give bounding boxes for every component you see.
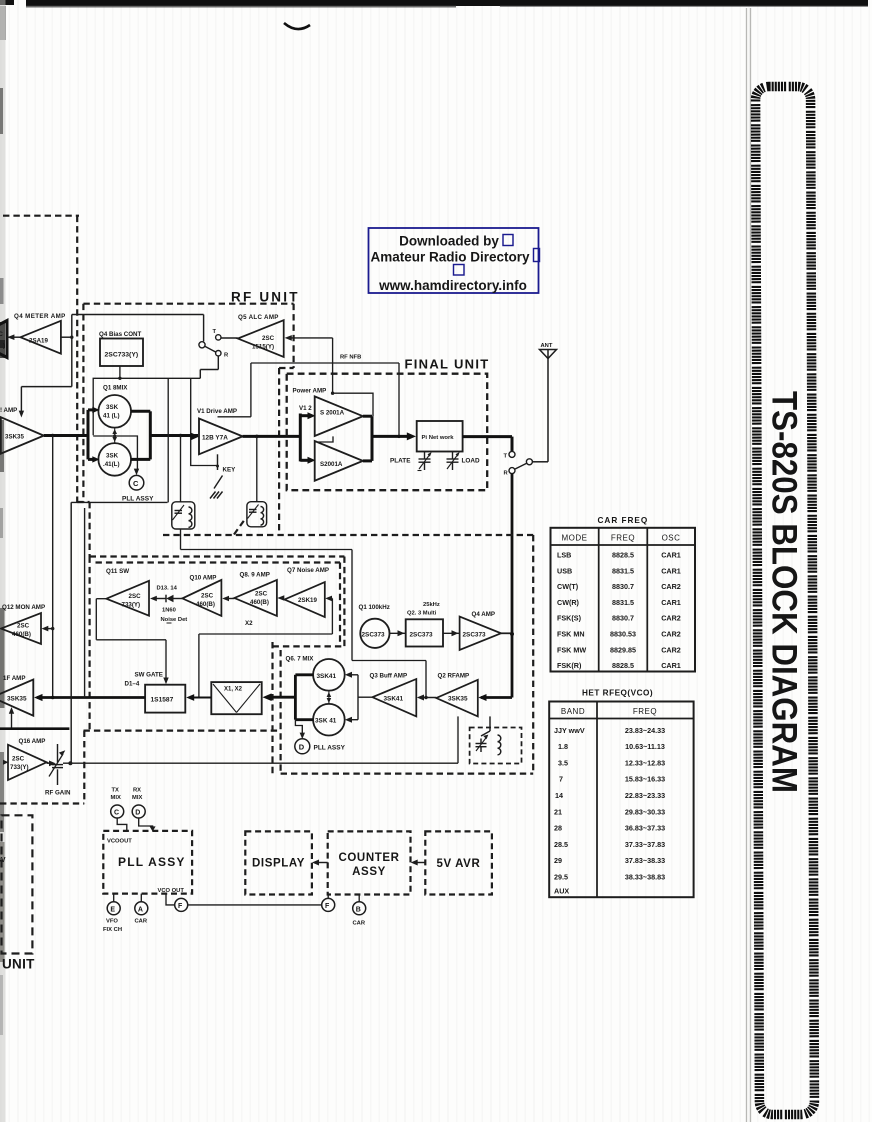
wire vertical bus x71.8 upper <box>167 378 169 502</box>
wire cal chain <box>390 632 406 634</box>
wire meter amp input from node <box>61 315 204 342</box>
svg-text:FINAL UNIT: FINAL UNIT <box>405 357 490 372</box>
binder perforated frame <box>756 86 815 1114</box>
svg-text:8V: 8V <box>0 857 6 864</box>
wire meter amp output w/ arrow <box>9 336 21 338</box>
svg-text:Q4 AMP: Q4 AMP <box>472 611 496 618</box>
svg-text:Q11 SW: Q11 SW <box>106 568 129 575</box>
svg-text:CW(R): CW(R) <box>557 598 580 607</box>
multiplier box X1,X2 <box>211 682 261 714</box>
PLL ASSY dashed box <box>103 831 192 894</box>
svg-text:Q1 8MIX: Q1 8MIX <box>103 385 128 392</box>
potentiometer RF GAIN <box>47 744 63 785</box>
middle dashed boxes <box>84 521 534 774</box>
svg-text:www.hamdirectory.info: www.hamdirectory.info <box>378 278 527 293</box>
svg-text:Power AMP: Power AMP <box>293 388 327 395</box>
node D to PLL ASSY <box>295 720 302 736</box>
svg-text:FSK(S): FSK(S) <box>557 614 582 623</box>
svg-text:41 (L): 41 (L) <box>103 413 120 420</box>
svg-text:12.33~12.83: 12.33~12.83 <box>625 758 665 767</box>
svg-text:PLL ASSY: PLL ASSY <box>122 496 154 503</box>
svg-text:BAND: BAND <box>561 707 585 716</box>
svg-text:CAR1: CAR1 <box>661 551 681 560</box>
svg-text:.41(L): .41(L) <box>103 461 120 468</box>
variable capacitor LOAD <box>447 452 459 471</box>
thick input bracket to Q1 8MIX <box>88 410 95 460</box>
svg-text:CAR FREQ: CAR FREQ <box>598 516 649 525</box>
svg-text:28.5: 28.5 <box>554 840 568 849</box>
svg-text:! AMP: ! AMP <box>0 407 17 414</box>
node F wire to counter <box>166 894 328 905</box>
wire tank1 bottom to noise amp chain <box>181 529 427 698</box>
wire R contact down to grid box <box>200 356 218 378</box>
svg-text:CAR2: CAR2 <box>661 630 681 639</box>
svg-text:10.63~11.13: 10.63~11.13 <box>625 742 665 751</box>
PA output bracket (thick) <box>363 416 407 461</box>
svg-text:F: F <box>325 903 330 910</box>
antenna T/R switch <box>509 451 532 473</box>
svg-text:MODE: MODE <box>562 534 588 543</box>
svg-text:CAR1: CAR1 <box>661 598 681 607</box>
thick output bracket from Q1 8MIX <box>131 411 150 459</box>
svg-text:12B Y7A: 12B Y7A <box>202 435 228 442</box>
svg-text:FIX CH: FIX CH <box>103 927 122 933</box>
svg-text:3SK41: 3SK41 <box>384 696 404 703</box>
svg-text:2SK19: 2SK19 <box>298 597 317 604</box>
svg-text:Q1 100kHz: Q1 100kHz <box>359 604 390 611</box>
svg-text:Q10 AMP: Q10 AMP <box>190 575 217 582</box>
svg-text:MIX: MIX <box>132 795 142 801</box>
svg-text:460(B): 460(B) <box>196 601 215 608</box>
mixer injection from Q3 <box>349 675 372 720</box>
wire 5V AVR to counter w/arrow <box>414 862 426 864</box>
wire RX into Q2 RFAMP (thick) <box>481 696 512 699</box>
svg-text:MIX: MIX <box>111 795 121 801</box>
svg-text:V1 Drive AMP: V1 Drive AMP <box>197 408 237 415</box>
svg-text:VCO OUT: VCO OUT <box>158 888 185 894</box>
svg-text:7: 7 <box>559 775 563 784</box>
svg-text:V1 2: V1 2 <box>299 405 312 412</box>
svg-text:2SC733(Y): 2SC733(Y) <box>105 352 139 359</box>
svg-text:VFO: VFO <box>106 919 118 925</box>
svg-text:Q2 RFAMP: Q2 RFAMP <box>438 673 470 680</box>
svg-text:COUNTER: COUNTER <box>338 852 399 864</box>
svg-text:CAR2: CAR2 <box>661 614 681 623</box>
svg-text:CAR1: CAR1 <box>661 566 681 575</box>
svg-text:F: F <box>178 903 183 910</box>
svg-text:8831.5: 8831.5 <box>612 566 634 575</box>
svg-text:Q16 AMP: Q16 AMP <box>19 738 46 745</box>
svg-text:CAR2: CAR2 <box>661 645 681 654</box>
mixer Q1 8MIX enclosure <box>93 378 217 470</box>
wire ALC feedback from PA <box>290 338 333 393</box>
svg-text:3SK35: 3SK35 <box>5 434 24 441</box>
svg-text:733(Y): 733(Y) <box>122 602 141 609</box>
mixer output bracket (thick) <box>271 675 313 720</box>
wire AGC up into 1F AMP <box>11 711 13 729</box>
mixer FET circles 3SK41(L) <box>98 395 131 476</box>
svg-text:S2001A: S2001A <box>320 461 343 468</box>
wire Q8 to Q10 w/arrow <box>227 598 235 600</box>
svg-text:8830.7: 8830.7 <box>612 614 634 623</box>
svg-text:Q3 Buff AMP: Q3 Buff AMP <box>370 673 408 680</box>
svg-text:X2: X2 <box>245 620 253 627</box>
tube V1 Drive AMP <box>197 408 243 454</box>
credit box (blue) <box>369 228 540 293</box>
wire Pi out to antenna switch (thick) <box>463 437 512 451</box>
svg-text:2SC373: 2SC373 <box>463 632 487 639</box>
5V AVR dashed box <box>425 831 492 894</box>
inter-mixer coupling <box>328 691 330 704</box>
svg-text:2SC: 2SC <box>12 756 25 763</box>
wire X1X2 to 1S1587 w/arrow <box>191 697 211 699</box>
svg-text:R: R <box>224 353 229 359</box>
svg-text:ASSY: ASSY <box>352 866 386 878</box>
svg-text:CW(T): CW(T) <box>557 582 579 591</box>
svg-text:28: 28 <box>554 824 562 833</box>
svg-text:2SC: 2SC <box>262 335 275 342</box>
svg-text:2SC: 2SC <box>201 593 214 600</box>
dashed box top-left unit border <box>3 216 79 502</box>
wire counter to display w/arrow <box>315 862 328 864</box>
svg-text:3SK 41: 3SK 41 <box>315 718 337 725</box>
svg-text:Noise Det: Noise Det <box>161 617 188 623</box>
svg-text:2SC373: 2SC373 <box>410 632 434 639</box>
svg-text:JJY wwV: JJY wwV <box>554 726 585 735</box>
binder strip page-edge lines <box>747 8 751 1122</box>
table CAR FREQ <box>551 516 696 672</box>
tube S2001A lower <box>315 441 363 481</box>
partial meter box at left edge <box>0 321 7 358</box>
svg-text:8828.5: 8828.5 <box>612 661 634 670</box>
tube S2001A upper <box>315 396 363 436</box>
svg-text:KEY: KEY <box>223 467 237 474</box>
svg-text:2SC: 2SC <box>17 623 30 630</box>
svg-text:8831.5: 8831.5 <box>612 598 634 607</box>
wire Q7 input feed <box>199 598 333 697</box>
svg-text:3SK: 3SK <box>106 453 119 460</box>
svg-text:25kHz: 25kHz <box>423 602 440 608</box>
svg-text:Q8. 9 AMP: Q8. 9 AMP <box>240 572 270 579</box>
svg-text:1515(Y): 1515(Y) <box>252 344 274 351</box>
svg-text:R: R <box>504 471 509 477</box>
dashed box around Q16 <box>0 731 84 804</box>
svg-text:Q5 ALC AMP: Q5 ALC AMP <box>238 314 279 321</box>
switch T/R (RF unit) <box>199 335 221 356</box>
wire Q7 to Q8 w/arrow <box>277 595 284 601</box>
svg-text:23.83~24.33: 23.83~24.33 <box>625 726 665 735</box>
tank feeds <box>180 436 182 502</box>
wire Q4 AMP out to RX line <box>501 632 512 634</box>
svg-text:733(Y): 733(Y) <box>10 764 29 771</box>
svg-text:15.83~16.33: 15.83~16.33 <box>625 775 665 784</box>
PA feedback loops <box>318 393 373 442</box>
svg-text:3SK35: 3SK35 <box>448 696 468 703</box>
wire RX line down from R contact (thick) <box>511 474 514 698</box>
RF unit dashed border <box>77 304 293 557</box>
svg-text:Q7 Noise AMP: Q7 Noise AMP <box>287 567 329 574</box>
svg-text:FSK MN: FSK MN <box>557 630 585 639</box>
DISPLAY dashed box <box>245 831 312 894</box>
svg-text:X1, X2: X1, X2 <box>224 687 243 693</box>
key circuit <box>210 454 223 498</box>
svg-text:PLATE: PLATE <box>390 458 411 465</box>
svg-text:LOAD: LOAD <box>462 458 480 465</box>
variable capacitor PLATE <box>418 452 431 471</box>
svg-text:RX: RX <box>133 788 141 794</box>
svg-text:2SC373: 2SC373 <box>362 632 386 639</box>
wire vertical bus x52.7 <box>52 436 54 698</box>
svg-text:OSC: OSC <box>662 534 681 543</box>
svg-text:TS-820S BLOCK DIAGRAM: TS-820S BLOCK DIAGRAM <box>765 391 804 793</box>
svg-text:PLL ASSY: PLL ASSY <box>314 745 346 752</box>
svg-text:37.83~38.33: 37.83~38.33 <box>625 856 665 865</box>
svg-text:1F AMP: 1F AMP <box>3 675 25 682</box>
box Pi Net work <box>417 421 463 452</box>
node B below counter <box>358 895 360 902</box>
svg-text:460(B): 460(B) <box>250 599 269 606</box>
svg-text:AUX: AUX <box>554 887 569 896</box>
svg-text:A: A <box>138 907 143 914</box>
svg-text:3SK35: 3SK35 <box>7 696 27 703</box>
inter-mixer coupling arrows <box>114 428 116 443</box>
svg-text:DISPLAY: DISPLAY <box>252 858 305 870</box>
svg-text:Amateur Radio Directory: Amateur Radio Directory <box>370 250 530 265</box>
svg-text:D1–4: D1–4 <box>125 681 140 688</box>
svg-text:Q12 MON AMP: Q12 MON AMP <box>2 604 45 611</box>
tank circuit 3 <box>470 728 522 764</box>
wire Q11 out to SW gate <box>96 599 166 680</box>
wires C/D into PLL assy <box>117 818 152 831</box>
svg-text:D: D <box>135 810 140 817</box>
tank circuit 2 (coil+cap) <box>247 502 267 527</box>
svg-text:37.33~37.83: 37.33~37.83 <box>625 840 665 849</box>
svg-text:1.8: 1.8 <box>558 742 568 751</box>
svg-text:3SK: 3SK <box>106 404 119 411</box>
svg-text:Downloaded by: Downloaded by <box>399 234 499 249</box>
svg-text:21: 21 <box>554 807 562 816</box>
svg-text:SW GATE: SW GATE <box>135 672 163 679</box>
svg-text:USB: USB <box>557 566 572 575</box>
svg-text:SC: SC <box>0 331 3 338</box>
svg-text:3SK41: 3SK41 <box>317 673 337 680</box>
svg-text:Q4 METER AMP: Q4 METER AMP <box>14 313 66 320</box>
svg-text:29.83~30.33: 29.83~30.33 <box>625 807 665 816</box>
svg-text:B: B <box>356 907 361 914</box>
svg-text:C: C <box>133 479 139 488</box>
svg-text:8829.85: 8829.85 <box>610 645 636 654</box>
wire T contact to ALC amp <box>221 337 238 339</box>
svg-text:CAR2: CAR2 <box>661 582 681 591</box>
svg-text:14: 14 <box>555 791 563 800</box>
svg-text:Q2. 3 Multi: Q2. 3 Multi <box>407 611 437 617</box>
svg-text:C: C <box>114 810 119 817</box>
antenna symbol and lead <box>532 350 556 462</box>
svg-text:FSK(R): FSK(R) <box>557 661 582 670</box>
node C to PLL ASSY <box>134 469 139 476</box>
svg-text:ANT: ANT <box>541 343 553 349</box>
svg-text:RF NFB: RF NFB <box>340 355 361 361</box>
svg-text:FREQ: FREQ <box>611 534 635 543</box>
svg-text:8828.5: 8828.5 <box>612 551 634 560</box>
svg-text:2SC: 2SC <box>255 591 268 598</box>
svg-text:T: T <box>504 454 508 460</box>
wire V1 screen/NFB <box>218 363 400 436</box>
svg-text:1S1587: 1S1587 <box>151 697 174 704</box>
svg-text:UNIT: UNIT <box>2 957 35 972</box>
box Q4 Bias CONT <box>99 331 143 380</box>
svg-text:RF UNIT: RF UNIT <box>231 290 300 305</box>
wire main IF line (thick) left <box>44 434 198 437</box>
svg-text:D13. 14: D13. 14 <box>157 586 178 592</box>
COUNTER ASSY dashed box <box>328 831 411 894</box>
amp RF AMP 3SK35 (left edge) <box>0 407 44 454</box>
svg-text:36.83~37.33: 36.83~37.33 <box>625 824 665 833</box>
svg-text:8830.7: 8830.7 <box>612 582 634 591</box>
svg-text:RF GAIN: RF GAIN <box>45 790 71 797</box>
svg-text:TX: TX <box>112 788 120 794</box>
svg-text:CAR1: CAR1 <box>661 661 681 670</box>
svg-text:Pi Net work: Pi Net work <box>422 435 455 441</box>
svg-text:29.5: 29.5 <box>554 873 568 882</box>
svg-text:2SA19: 2SA19 <box>29 338 48 345</box>
svg-text:HET RFEQ(VCO): HET RFEQ(VCO) <box>582 689 653 698</box>
svg-text:LSB: LSB <box>557 551 571 560</box>
wire AGC branch down to RF amp <box>21 337 71 413</box>
nodes E A below PLL <box>113 894 115 902</box>
amp Q5 ALC AMP <box>238 314 284 357</box>
svg-text:CAR: CAR <box>353 921 366 927</box>
svg-text:FSK MW: FSK MW <box>557 645 586 654</box>
svg-text:FREQ: FREQ <box>633 707 657 716</box>
svg-text:22.83~23.33: 22.83~23.33 <box>625 791 665 800</box>
svg-text:5V AVR: 5V AVR <box>437 858 481 870</box>
svg-text:T: T <box>213 329 217 335</box>
FINAL UNIT dashed border <box>287 374 488 491</box>
svg-text:2SC: 2SC <box>129 593 142 600</box>
svg-text:38.33~38.83: 38.33~38.83 <box>625 873 665 882</box>
svg-text:8830.53: 8830.53 <box>610 630 636 639</box>
wire Q2 to Q3 <box>421 697 436 699</box>
table HET RFEQ(VCO) <box>549 689 693 898</box>
svg-text:): ) <box>3 343 5 350</box>
wire IF line to gate (thick) <box>37 696 145 699</box>
wire RF gain line to Q2 source <box>63 716 458 763</box>
svg-text:PLL ASSY: PLL ASSY <box>118 855 186 869</box>
bottom-left unit dashed box <box>2 815 33 953</box>
PA input bracket (thick) <box>300 414 308 462</box>
tank circuit 1 (coil+cap) <box>172 502 195 529</box>
wire Q12 input <box>46 628 53 630</box>
thick bottom bus <box>0 727 69 730</box>
svg-text:CAR: CAR <box>135 919 148 925</box>
amp Q4 METER AMP <box>14 313 66 354</box>
wire V1 plate out (thick) <box>243 435 301 438</box>
svg-text:E: E <box>110 907 115 914</box>
svg-text:460(B): 460(B) <box>12 631 31 638</box>
svg-text:D: D <box>299 743 305 752</box>
svg-text:Q4 Bias CONT: Q4 Bias CONT <box>99 331 142 338</box>
svg-text:3.5: 3.5 <box>558 758 568 767</box>
svg-text:VCOOUT: VCOOUT <box>107 839 132 845</box>
svg-text:Q6. 7 MIX: Q6. 7 MIX <box>286 656 315 663</box>
svg-text:S 2001A: S 2001A <box>320 410 345 417</box>
svg-text:1N60: 1N60 <box>162 608 176 614</box>
svg-text:29: 29 <box>554 856 562 865</box>
